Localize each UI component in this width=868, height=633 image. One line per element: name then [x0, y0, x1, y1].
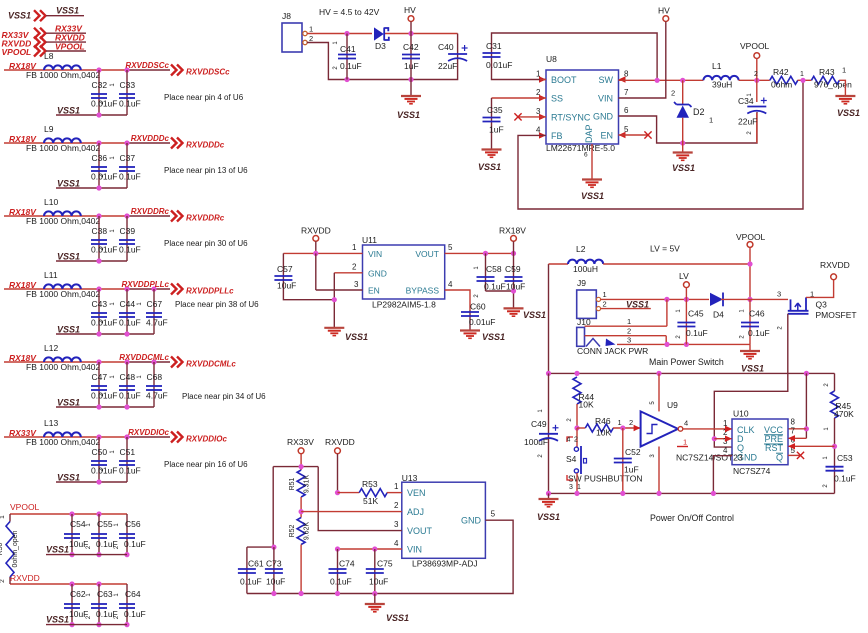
svg-text:NC7SZ74: NC7SZ74: [733, 466, 771, 476]
svg-text:0.1uF: 0.1uF: [119, 99, 141, 109]
svg-text:Place near pin 30 of U6: Place near pin 30 of U6: [164, 239, 248, 248]
svg-text:2: 2: [309, 34, 313, 43]
svg-text:0.1uF: 0.1uF: [119, 466, 141, 476]
svg-text:1: 1: [627, 317, 631, 326]
svg-text:S4: S4: [566, 454, 577, 464]
svg-text:2: 2: [394, 501, 399, 510]
svg-text:VSS1: VSS1: [57, 398, 80, 408]
svg-text:1: 1: [309, 25, 313, 34]
svg-text:C42: C42: [403, 42, 419, 52]
svg-text:0.1uF: 0.1uF: [340, 61, 362, 71]
svg-text:C64: C64: [125, 589, 141, 599]
svg-text:C44: C44: [120, 299, 136, 309]
svg-text:R51: R51: [289, 477, 296, 490]
svg-text:LP2982AIM5-1.8: LP2982AIM5-1.8: [372, 300, 436, 310]
svg-text:10uF: 10uF: [277, 281, 296, 291]
svg-text:0ohm: 0ohm: [771, 80, 792, 90]
svg-text:VSS1: VSS1: [523, 310, 546, 320]
svg-text:7: 7: [624, 88, 629, 97]
svg-text:RXVDDDc: RXVDDDc: [186, 141, 225, 150]
svg-text:EN: EN: [368, 286, 380, 296]
svg-text:C55: C55: [97, 519, 113, 529]
svg-text:C60: C60: [470, 302, 486, 312]
svg-text:C46: C46: [749, 309, 765, 319]
svg-text:0.1uF: 0.1uF: [240, 577, 262, 587]
svg-text:10K: 10K: [579, 400, 594, 410]
svg-text:EN: EN: [600, 131, 613, 141]
svg-text:VSS1: VSS1: [8, 11, 31, 21]
svg-text:51K: 51K: [363, 496, 378, 506]
svg-text:VSS1: VSS1: [741, 364, 764, 374]
svg-text:RXVDDSCc: RXVDDSCc: [186, 68, 230, 77]
svg-text:Place near pin 13 of U6: Place near pin 13 of U6: [164, 166, 248, 175]
svg-text:C73: C73: [266, 559, 282, 569]
svg-text:RXVDDCMLc: RXVDDCMLc: [119, 353, 169, 362]
svg-text:L13: L13: [44, 418, 58, 428]
svg-text:C38: C38: [92, 226, 108, 236]
svg-text:9.31K: 9.31K: [304, 475, 311, 494]
svg-text:1: 1: [0, 515, 6, 519]
svg-text:U10: U10: [733, 409, 749, 419]
svg-text:Main Power Switch: Main Power Switch: [649, 357, 724, 367]
svg-text:470K: 470K: [834, 409, 854, 419]
svg-text:100uH: 100uH: [573, 264, 598, 274]
svg-text:R42: R42: [773, 67, 789, 77]
svg-text:C47: C47: [92, 372, 108, 382]
svg-text:C39: C39: [120, 226, 136, 236]
svg-text:VSS1: VSS1: [837, 108, 860, 118]
svg-text:0.1uF: 0.1uF: [330, 577, 352, 587]
svg-text:VSS1: VSS1: [345, 332, 368, 342]
svg-text:5: 5: [448, 243, 453, 252]
svg-text:R53: R53: [362, 479, 378, 489]
svg-text:D2: D2: [693, 107, 705, 117]
svg-text:4: 4: [394, 539, 399, 548]
svg-text:Place near pin 4 of U6: Place near pin 4 of U6: [164, 93, 244, 102]
svg-text:CONN JACK PWR: CONN JACK PWR: [577, 346, 648, 356]
svg-text:22uF: 22uF: [438, 61, 457, 71]
svg-text:1: 1: [618, 418, 622, 427]
svg-text:3: 3: [627, 336, 631, 345]
svg-text:2: 2: [574, 437, 578, 444]
svg-text:7: 7: [791, 427, 796, 436]
svg-text:R46: R46: [595, 416, 611, 426]
svg-text:Q3: Q3: [816, 300, 828, 310]
svg-text:0.1uF: 0.1uF: [119, 318, 141, 328]
svg-text:C75: C75: [377, 559, 393, 569]
svg-text:0.1uF: 0.1uF: [124, 539, 146, 549]
svg-text:Place near pin 34 of U6: Place near pin 34 of U6: [182, 392, 266, 401]
svg-text:VSS1: VSS1: [397, 110, 420, 120]
svg-text:1: 1: [603, 290, 607, 299]
svg-text:U13: U13: [402, 473, 418, 483]
svg-text:VSS1: VSS1: [537, 512, 560, 522]
svg-text:Place near pin 16 of U6: Place near pin 16 of U6: [164, 460, 248, 469]
svg-text:4: 4: [448, 280, 453, 289]
svg-text:VSS1: VSS1: [386, 613, 409, 623]
svg-text:1: 1: [683, 438, 687, 447]
svg-text:SW: SW: [599, 75, 614, 85]
svg-text:6: 6: [584, 152, 588, 159]
svg-text:C33: C33: [120, 80, 136, 90]
svg-text:0.1uF: 0.1uF: [748, 328, 770, 338]
svg-text:2: 2: [352, 262, 357, 271]
svg-text:0.1uF: 0.1uF: [686, 328, 708, 338]
svg-text:VPOOL: VPOOL: [55, 41, 85, 51]
svg-text:9.62K: 9.62K: [304, 522, 311, 541]
svg-text:FB 1000 Ohm,0402: FB 1000 Ohm,0402: [26, 216, 100, 226]
svg-text:C41: C41: [340, 44, 356, 54]
svg-text:R52: R52: [289, 524, 296, 537]
svg-text:VPOOL: VPOOL: [740, 41, 770, 51]
svg-text:1uF: 1uF: [489, 125, 504, 135]
svg-text:10uF: 10uF: [506, 282, 525, 292]
svg-text:C56: C56: [125, 519, 141, 529]
svg-text:C52: C52: [625, 447, 641, 457]
svg-text:RXVDDIOc: RXVDDIOc: [128, 428, 169, 437]
svg-text:C32: C32: [92, 80, 108, 90]
svg-text:3: 3: [569, 484, 573, 491]
svg-text:1: 1: [800, 71, 804, 78]
svg-text:1uF: 1uF: [404, 61, 419, 71]
svg-text:3: 3: [394, 520, 399, 529]
svg-text:976_open: 976_open: [814, 80, 852, 90]
svg-text:0.1uF: 0.1uF: [484, 282, 506, 292]
svg-text:0.1uF: 0.1uF: [834, 474, 856, 484]
svg-text:1uF: 1uF: [624, 465, 639, 475]
svg-text:L8: L8: [44, 51, 54, 61]
svg-text:2: 2: [627, 327, 631, 336]
svg-text:VPOOL: VPOOL: [736, 232, 766, 242]
svg-text:C67: C67: [147, 299, 163, 309]
svg-text:C48: C48: [120, 372, 136, 382]
svg-text:HV: HV: [404, 5, 416, 15]
svg-text:D3: D3: [375, 41, 386, 51]
svg-text:C59: C59: [505, 264, 521, 274]
svg-text:C40: C40: [438, 42, 454, 52]
svg-text:U8: U8: [546, 54, 557, 64]
svg-text:VSS1: VSS1: [57, 106, 80, 116]
svg-text:RXVDDSCc: RXVDDSCc: [125, 61, 169, 70]
svg-text:RXVDDPLLc: RXVDDPLLc: [186, 287, 234, 296]
svg-text:RXVDD: RXVDD: [325, 437, 355, 447]
svg-text:RXVDDRc: RXVDDRc: [186, 214, 225, 223]
svg-text:RXVDDCMLc: RXVDDCMLc: [186, 360, 236, 369]
svg-text:4.7uF: 4.7uF: [146, 318, 168, 328]
svg-text:VSS1: VSS1: [46, 615, 69, 625]
svg-text:100uF: 100uF: [524, 437, 548, 447]
svg-text:VPOOL: VPOOL: [2, 47, 32, 57]
svg-text:C54: C54: [70, 519, 86, 529]
svg-text:PMOSFET: PMOSFET: [816, 310, 857, 320]
svg-text:LM22671MRE-5.0: LM22671MRE-5.0: [546, 143, 615, 153]
svg-text:0.01uF: 0.01uF: [486, 60, 512, 70]
svg-text:RXVDD: RXVDD: [10, 573, 40, 583]
svg-text:FB 1000 Ohm,0402: FB 1000 Ohm,0402: [26, 143, 100, 153]
svg-text:3: 3: [354, 280, 359, 289]
svg-text:VSS1: VSS1: [57, 473, 80, 483]
svg-text:L10: L10: [44, 197, 58, 207]
svg-text:10uF: 10uF: [369, 577, 388, 587]
svg-text:L9: L9: [44, 124, 54, 134]
svg-text:C50: C50: [92, 447, 108, 457]
svg-text:VOUT: VOUT: [415, 249, 439, 259]
svg-text:C31: C31: [486, 41, 502, 51]
svg-text:2: 2: [603, 300, 607, 309]
svg-text:VSS1: VSS1: [57, 325, 80, 335]
svg-text:0.1uF: 0.1uF: [124, 609, 146, 619]
svg-text:0ohm_open: 0ohm_open: [12, 530, 19, 567]
svg-text:LP38693MP-ADJ: LP38693MP-ADJ: [412, 559, 478, 569]
svg-text:ADJ: ADJ: [407, 507, 424, 517]
svg-text:GND: GND: [593, 112, 614, 122]
svg-text:J8: J8: [282, 11, 291, 21]
svg-text:VSS1: VSS1: [626, 300, 649, 310]
svg-text:C58: C58: [486, 264, 502, 274]
svg-text:VOUT: VOUT: [407, 526, 433, 536]
svg-text:J9: J9: [577, 278, 586, 288]
svg-text:NC7SZ14/SOT23: NC7SZ14/SOT23: [676, 453, 743, 463]
svg-text:2: 2: [671, 89, 675, 98]
svg-text:SW PUSHBUTTON: SW PUSHBUTTON: [568, 474, 642, 484]
svg-text:RXVDD: RXVDD: [820, 260, 850, 270]
svg-text:C53: C53: [837, 453, 853, 463]
svg-text:BYPASS: BYPASS: [406, 286, 440, 296]
svg-text:VIN: VIN: [598, 94, 613, 104]
svg-text:2: 2: [629, 418, 633, 427]
svg-text:RXVDDRc: RXVDDRc: [131, 207, 170, 216]
svg-text:RXVDDIOc: RXVDDIOc: [186, 435, 227, 444]
svg-text:GND: GND: [461, 516, 482, 526]
svg-text:C43: C43: [92, 299, 108, 309]
svg-text:3: 3: [777, 290, 781, 299]
svg-text:L12: L12: [44, 343, 58, 353]
svg-text:VSS1: VSS1: [57, 252, 80, 262]
svg-text:C36: C36: [92, 153, 108, 163]
svg-text:FB 1000 Ohm,0402: FB 1000 Ohm,0402: [26, 70, 100, 80]
svg-text:VSS1: VSS1: [672, 163, 695, 173]
svg-text:U9: U9: [667, 400, 678, 410]
svg-text:VSS1: VSS1: [478, 162, 501, 172]
svg-text:10K: 10K: [596, 428, 611, 438]
svg-text:C49: C49: [531, 419, 547, 429]
svg-text:4: 4: [684, 419, 688, 428]
svg-text:6: 6: [624, 106, 629, 115]
svg-text:C45: C45: [688, 309, 704, 319]
svg-text:LV: LV: [679, 271, 689, 281]
svg-text:RT/SYNC: RT/SYNC: [551, 112, 591, 122]
svg-text:0.1uF: 0.1uF: [119, 245, 141, 255]
svg-text:SS: SS: [551, 94, 563, 104]
svg-text:C51: C51: [120, 447, 136, 457]
svg-text:C68: C68: [147, 372, 163, 382]
svg-text:10uF: 10uF: [266, 577, 285, 587]
svg-text:2: 2: [754, 71, 758, 78]
svg-text:L1: L1: [712, 61, 722, 71]
svg-text:VSS1: VSS1: [46, 545, 69, 555]
svg-text:C62: C62: [70, 589, 86, 599]
svg-text:FB: FB: [551, 131, 563, 141]
svg-text:VEN: VEN: [407, 488, 426, 498]
svg-text:R50: R50: [0, 542, 4, 555]
svg-text:HV = 4.5 to 42V: HV = 4.5 to 42V: [319, 7, 380, 17]
svg-text:VSS1: VSS1: [57, 179, 80, 189]
svg-text:4: 4: [567, 437, 571, 444]
svg-text:VSS1: VSS1: [56, 6, 79, 16]
svg-text:1: 1: [842, 66, 846, 75]
svg-text:RX33V: RX33V: [287, 437, 314, 447]
svg-text:C35: C35: [487, 105, 503, 115]
svg-text:0.01uF: 0.01uF: [469, 317, 495, 327]
svg-text:FB 1000 Ohm,0402: FB 1000 Ohm,0402: [26, 362, 100, 372]
svg-text:R43: R43: [819, 67, 835, 77]
svg-text:GND: GND: [368, 268, 387, 278]
svg-text:D4: D4: [713, 310, 724, 320]
svg-text:C57: C57: [277, 264, 293, 274]
svg-text:DAP: DAP: [584, 124, 594, 143]
svg-text:1: 1: [709, 116, 713, 125]
svg-text:VIN: VIN: [368, 249, 382, 259]
svg-text:4.7uF: 4.7uF: [146, 391, 168, 401]
svg-text:Q: Q: [776, 453, 783, 463]
svg-text:RX18V: RX18V: [499, 226, 526, 236]
svg-text:L11: L11: [44, 270, 58, 280]
svg-text:VSS1: VSS1: [482, 332, 505, 342]
svg-text:22uF: 22uF: [738, 117, 757, 127]
svg-text:L2: L2: [576, 244, 586, 254]
svg-text:C74: C74: [339, 559, 355, 569]
svg-text:1: 1: [352, 243, 357, 252]
svg-text:C61: C61: [248, 559, 264, 569]
svg-text:FB 1000 Ohm,0402: FB 1000 Ohm,0402: [26, 437, 100, 447]
svg-text:0.1uF: 0.1uF: [119, 172, 141, 182]
svg-text:C37: C37: [120, 153, 136, 163]
svg-text:LV = 5V: LV = 5V: [650, 244, 680, 254]
svg-text:U11: U11: [362, 235, 377, 245]
svg-text:VSS1: VSS1: [581, 191, 604, 201]
svg-text:HV: HV: [658, 6, 670, 16]
svg-text:FB 1000 Ohm,0402: FB 1000 Ohm,0402: [26, 289, 100, 299]
svg-text:VIN: VIN: [407, 545, 422, 555]
svg-text:1: 1: [394, 482, 399, 491]
svg-text:RXVDDDc: RXVDDDc: [131, 134, 170, 143]
svg-text:8: 8: [791, 418, 796, 427]
svg-text:C63: C63: [97, 589, 113, 599]
svg-text:0.1uF: 0.1uF: [119, 391, 141, 401]
svg-text:RXVDDPLLc: RXVDDPLLc: [121, 280, 169, 289]
svg-text:2: 2: [0, 579, 6, 583]
svg-text:Power On/Off Control: Power On/Off Control: [650, 513, 734, 523]
svg-text:RXVDD: RXVDD: [301, 226, 331, 236]
svg-text:BOOT: BOOT: [551, 75, 577, 85]
svg-text:5: 5: [491, 510, 496, 519]
svg-text:Place near pin 38 of U6: Place near pin 38 of U6: [175, 300, 259, 309]
svg-text:VPOOL: VPOOL: [10, 502, 40, 512]
svg-text:39uH: 39uH: [712, 80, 732, 90]
